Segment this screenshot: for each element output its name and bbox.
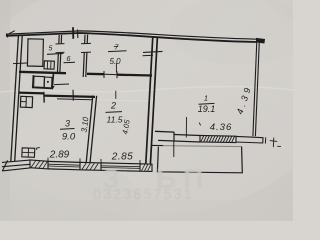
- svg-text:4.36: 4.36: [210, 122, 233, 133]
- svg-text:5: 5: [49, 46, 53, 53]
- svg-text:3: 3: [65, 119, 70, 129]
- svg-text:5.0: 5.0: [109, 57, 121, 66]
- svg-text:2.85: 2.85: [111, 152, 133, 163]
- svg-text:19.1: 19.1: [198, 104, 216, 114]
- svg-text:0323857531: 0323857531: [93, 187, 194, 203]
- svg-text:11.5: 11.5: [107, 115, 123, 125]
- svg-text:1: 1: [204, 94, 208, 103]
- svg-text:2.89: 2.89: [49, 150, 70, 161]
- svg-text:2: 2: [110, 101, 116, 111]
- svg-text:9.0: 9.0: [62, 132, 76, 143]
